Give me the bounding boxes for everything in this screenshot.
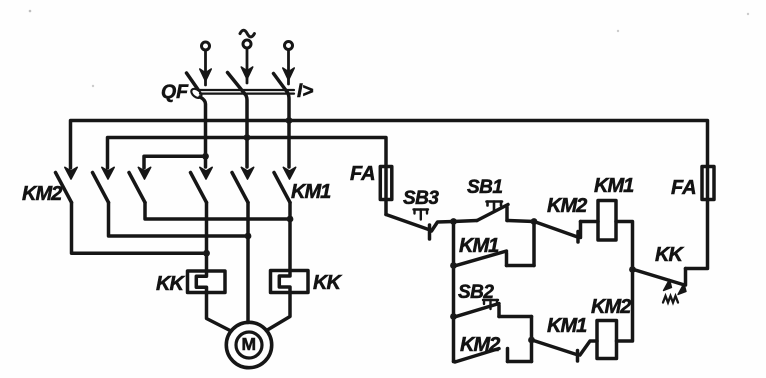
coil KM2 — [597, 321, 617, 359]
supply arrow L2 — [241, 49, 252, 84]
junction node SB3/SB1 — [450, 218, 457, 225]
SB2 actuator — [483, 300, 498, 309]
scan speck — [29, 10, 32, 13]
wire crossover phase L1 to KM2 pole C — [144, 156, 206, 168]
svg-text:KK: KK — [655, 244, 684, 266]
wire pole F output down to thermal element KK — [288, 203, 292, 271]
junction node SB2 row — [450, 313, 457, 320]
QF pole 3 lower lead wire — [288, 93, 290, 121]
thermal relay contact KK (NC) — [634, 269, 687, 303]
wire KM2 pole C output to KM1 pole F output — [145, 203, 290, 220]
contactor KM2 pole A contact — [56, 167, 78, 202]
wire pole D output down to thermal element KK — [205, 203, 209, 272]
pushbutton SB1 (start fwd, NO) — [454, 205, 535, 222]
thermal relay KK heater (left) — [188, 271, 226, 293]
fuse FA (left, control supply) — [380, 167, 392, 215]
circuit breaker QF pole 3 blade — [274, 74, 288, 93]
wire left KK to motor — [207, 293, 232, 332]
svg-text:KK: KK — [313, 272, 342, 294]
pushbutton SB3 (stop, NC) blade — [386, 215, 430, 240]
supply arrow L1 — [200, 51, 211, 86]
svg-text:SB1: SB1 — [467, 177, 502, 198]
svg-text:KM2: KM2 — [591, 296, 631, 318]
motor M — [226, 322, 271, 367]
junction node KM1 aux row — [450, 262, 457, 269]
svg-text:SB3: SB3 — [403, 188, 439, 209]
junction pole F output — [287, 216, 294, 223]
svg-text:M: M — [242, 334, 257, 354]
svg-text:FA: FA — [671, 177, 697, 199]
svg-text:KM2: KM2 — [22, 183, 62, 205]
junction crossover / QF pole 1 — [202, 153, 209, 160]
junction bus L3 / QF pole 3 — [286, 117, 293, 124]
svg-text:KM1: KM1 — [291, 181, 331, 203]
junction bus L2 / QF pole 2 — [244, 134, 251, 141]
svg-text:KK: KK — [156, 273, 185, 295]
circuit breaker QF pole 2 blade — [228, 73, 245, 94]
svg-text:KM2: KM2 — [460, 334, 500, 356]
svg-text:QF: QF — [161, 81, 189, 103]
auxiliary contact KM1 (hold-in, NO) — [455, 222, 534, 266]
wire QF pole3 to KM1 pole F — [287, 121, 291, 168]
svg-text:KM1: KM1 — [547, 315, 587, 337]
contactor KM1 pole E contact — [232, 167, 254, 202]
QF linkage bar — [198, 90, 294, 94]
node column wire (common rail after SB3) — [452, 222, 456, 362]
terminal L3 — [285, 42, 293, 50]
terminal L1 — [202, 42, 210, 50]
wire KM2 pole B output to KM1 pole E output — [109, 203, 249, 237]
junction coils / KK contact — [629, 266, 636, 273]
wire bus phase L3 (top long horizontal) — [71, 121, 708, 169]
interlock contact KM2 (NC, in KM1 coil row) — [536, 222, 599, 243]
svg-text:I>: I> — [297, 81, 313, 102]
contactor KM1 pole D contact — [191, 167, 213, 202]
svg-text:SB2: SB2 — [458, 282, 494, 303]
wire node column bottom to KM2 aux — [454, 360, 456, 364]
thermal relay KK heater (right) — [271, 271, 309, 293]
junction SB2/KM2-aux to interlock branch — [528, 337, 535, 344]
wire pole E output down to motor — [246, 203, 250, 323]
svg-text:FA: FA — [350, 163, 376, 185]
junction pole E output — [245, 233, 252, 240]
supply tilde label — [240, 30, 254, 37]
wire KK contact to fuse FA right — [686, 200, 708, 269]
SB3 actuator — [414, 210, 429, 220]
wire bus phase L2 (second horizontal) — [108, 138, 387, 169]
pushbutton SB2 (start rev, NO) — [455, 304, 532, 341]
SB1 actuator — [487, 202, 503, 211]
junction after SB1 — [531, 218, 538, 225]
svg-text:KM2: KM2 — [547, 195, 587, 217]
coil KM1 — [598, 201, 616, 241]
wire coil KM1 to right column — [616, 222, 633, 270]
auxiliary contact KM2 (hold-in, NO) — [455, 340, 532, 362]
circuit breaker QF pole 1 blade — [187, 73, 204, 100]
QF pole 2 lower lead wire — [245, 94, 248, 138]
wire SB3 to node 1 — [432, 222, 454, 232]
QF pole 1 lower lead wire — [200, 97, 206, 156]
scan speck — [92, 85, 94, 87]
contactor KM2 pole C contact — [129, 167, 151, 202]
scan speck — [617, 30, 619, 32]
svg-text:KM1: KM1 — [459, 235, 499, 257]
scan speck — [747, 13, 749, 15]
wire coil KM2 to right column — [617, 270, 633, 342]
wire QF pole1 to KM1 pole D — [204, 156, 208, 167]
contactor KM1 pole F contact — [274, 167, 296, 202]
terminal L2 — [243, 40, 251, 48]
supply arrow L3 — [283, 50, 294, 84]
junction pole D output — [203, 250, 210, 257]
svg-text:KM1: KM1 — [594, 175, 634, 197]
contactor KM2 pole B contact — [93, 167, 115, 202]
wire KM2 pole A output to KM1 pole D output — [72, 203, 207, 254]
wire QF pole2 to KM1 pole E — [245, 138, 249, 168]
wire right KK to motor — [267, 293, 291, 331]
interlock contact KM1 (NC, in KM2 coil row) — [534, 341, 598, 362]
fuse FA (right) — [702, 167, 714, 200]
